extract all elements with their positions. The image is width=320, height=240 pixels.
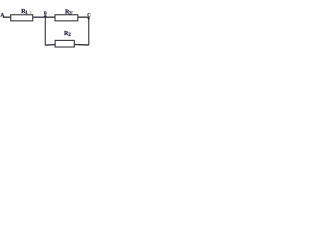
svg-text:3: 3 — [69, 11, 72, 17]
svg-text:C: C — [87, 14, 91, 19]
svg-text:B: B — [44, 11, 47, 16]
svg-text:A: A — [0, 13, 4, 19]
